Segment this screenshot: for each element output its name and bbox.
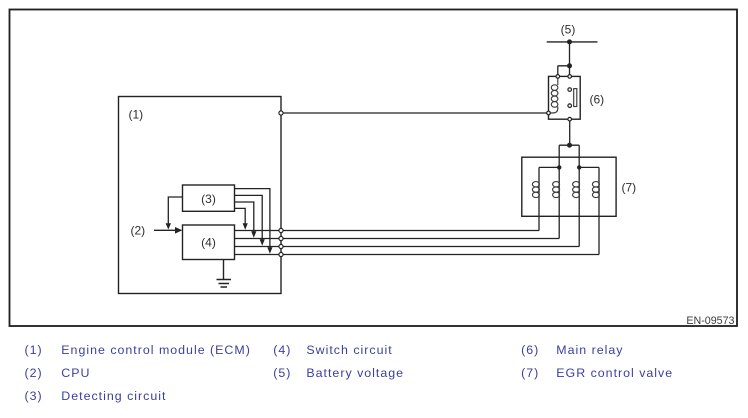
- svg-text:Engine control module (ECM): Engine control module (ECM): [61, 343, 251, 357]
- svg-text:Battery voltage: Battery voltage: [306, 366, 404, 380]
- svg-text:(7): (7): [521, 366, 539, 380]
- svg-text:(5): (5): [561, 23, 576, 37]
- svg-text:(2): (2): [25, 366, 43, 380]
- svg-text:(2): (2): [131, 224, 146, 238]
- svg-text:(6): (6): [590, 92, 605, 106]
- svg-text:EN-09573: EN-09573: [686, 315, 734, 327]
- svg-text:CPU: CPU: [61, 366, 90, 380]
- svg-text:(4): (4): [201, 236, 216, 250]
- svg-text:Main relay: Main relay: [556, 343, 623, 357]
- svg-text:(1): (1): [25, 343, 43, 357]
- svg-text:(4): (4): [273, 343, 291, 357]
- svg-text:EGR control valve: EGR control valve: [556, 366, 673, 380]
- svg-text:Switch circuit: Switch circuit: [306, 343, 392, 357]
- svg-text:(3): (3): [201, 192, 216, 206]
- svg-text:(1): (1): [129, 108, 144, 122]
- svg-text:(7): (7): [622, 181, 637, 195]
- svg-text:(3): (3): [25, 389, 43, 403]
- svg-text:Detecting circuit: Detecting circuit: [61, 389, 166, 403]
- svg-text:(5): (5): [273, 366, 291, 380]
- svg-text:(6): (6): [521, 343, 539, 357]
